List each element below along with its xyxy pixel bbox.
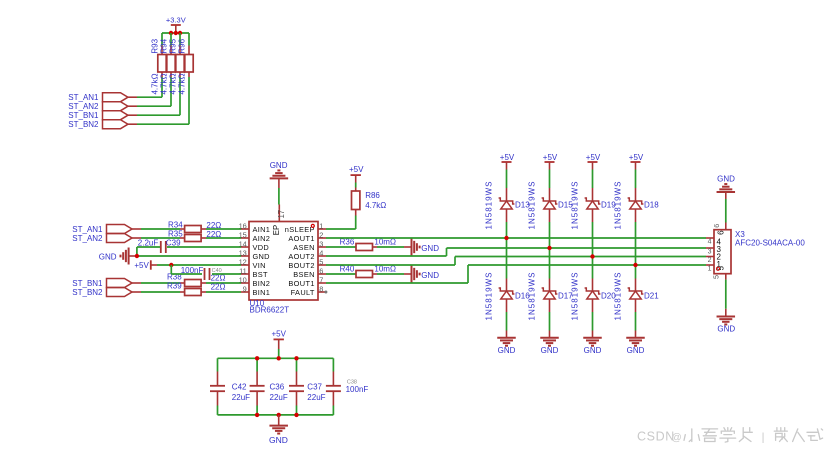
svg-text:R36: R36	[340, 238, 355, 247]
svg-text:4: 4	[708, 239, 712, 246]
svg-text:1N5819WS: 1N5819WS	[485, 181, 494, 230]
svg-text:GND: GND	[627, 346, 645, 355]
svg-text:GND: GND	[541, 346, 559, 355]
svg-text:BST: BST	[253, 270, 268, 279]
svg-text:100nF: 100nF	[181, 266, 204, 275]
svg-text:4.7kΩ: 4.7kΩ	[178, 73, 187, 94]
svg-text:ST_BN1: ST_BN1	[72, 279, 103, 288]
svg-text:3: 3	[708, 249, 712, 256]
svg-text:GND: GND	[717, 174, 735, 183]
svg-text:ST_AN1: ST_AN1	[72, 225, 103, 234]
svg-text:22Ω: 22Ω	[211, 282, 226, 291]
svg-text:22uF: 22uF	[307, 393, 325, 402]
svg-text:22Ω: 22Ω	[206, 221, 221, 230]
svg-text:GND: GND	[253, 252, 270, 261]
svg-text:+5V: +5V	[134, 261, 149, 270]
svg-text:6: 6	[712, 224, 721, 228]
svg-text:100nF: 100nF	[346, 385, 369, 394]
svg-text:|: |	[762, 432, 765, 444]
svg-text:AFC20-S04ACA-00: AFC20-S04ACA-00	[735, 239, 805, 248]
svg-text:5: 5	[319, 258, 323, 267]
svg-text:AIN1: AIN1	[253, 225, 271, 234]
svg-text:+5V: +5V	[271, 330, 286, 339]
svg-text:nSLEEP: nSLEEP	[285, 225, 315, 234]
svg-text:ST_AN2: ST_AN2	[68, 102, 99, 111]
svg-text:BIN1: BIN1	[253, 288, 271, 297]
svg-text:GND: GND	[498, 346, 516, 355]
svg-text:4.7kΩ: 4.7kΩ	[169, 73, 178, 94]
svg-text:1N5819WS: 1N5819WS	[485, 272, 494, 321]
svg-text:6: 6	[717, 230, 726, 235]
svg-text:10mΩ: 10mΩ	[374, 265, 396, 274]
svg-text:3: 3	[319, 240, 323, 249]
svg-text:+5V: +5V	[629, 153, 644, 162]
svg-text:ST_AN1: ST_AN1	[68, 93, 99, 102]
svg-text:BOUT2: BOUT2	[288, 261, 314, 270]
svg-text:2: 2	[708, 257, 712, 264]
svg-text:AOUT2: AOUT2	[288, 252, 314, 261]
svg-text:1N5819WS: 1N5819WS	[614, 181, 623, 230]
svg-text:4.7kΩ: 4.7kΩ	[160, 73, 169, 94]
svg-text:10mΩ: 10mΩ	[374, 238, 396, 247]
svg-text:C37: C37	[307, 383, 322, 392]
svg-text:2.2uF: 2.2uF	[138, 239, 159, 248]
svg-text:R86: R86	[365, 191, 380, 200]
svg-text:+5V: +5V	[586, 153, 601, 162]
svg-text:CSDN: CSDN	[637, 430, 675, 444]
svg-text:5: 5	[717, 266, 726, 271]
svg-text:BIN2: BIN2	[253, 279, 271, 288]
svg-text:GND: GND	[421, 244, 439, 253]
svg-text:@: @	[672, 432, 682, 443]
svg-text:C36: C36	[270, 383, 285, 392]
svg-text:ST_BN2: ST_BN2	[68, 120, 99, 129]
svg-text:4.7kΩ: 4.7kΩ	[365, 201, 386, 210]
svg-text:X3: X3	[735, 230, 745, 239]
svg-text:R40: R40	[340, 265, 355, 274]
svg-text:R96: R96	[178, 38, 187, 53]
svg-text:+5V: +5V	[543, 153, 558, 162]
svg-text:8: 8	[319, 285, 323, 294]
svg-text:17: 17	[277, 210, 286, 219]
svg-text:GND: GND	[99, 252, 117, 261]
svg-text:2: 2	[319, 231, 323, 240]
svg-text:1N5819WS: 1N5819WS	[528, 181, 537, 230]
svg-text:EP: EP	[272, 225, 281, 235]
svg-text:1N5819WS: 1N5819WS	[571, 181, 580, 230]
svg-text:AOUT1: AOUT1	[288, 234, 314, 243]
svg-text:GND: GND	[717, 324, 735, 333]
svg-text:ST_AN2: ST_AN2	[72, 234, 103, 243]
svg-text:1N5819WS: 1N5819WS	[614, 272, 623, 321]
svg-text:+3.3V: +3.3V	[166, 16, 186, 25]
svg-text:9: 9	[243, 285, 247, 294]
svg-text:AIN2: AIN2	[253, 234, 271, 243]
svg-text:D18: D18	[644, 201, 659, 210]
svg-text:D21: D21	[644, 291, 659, 300]
svg-text:GND: GND	[584, 346, 602, 355]
svg-text:C42: C42	[232, 383, 247, 392]
svg-text:ST_BN1: ST_BN1	[68, 111, 99, 120]
svg-text:VDD: VDD	[253, 243, 270, 252]
svg-text:GND: GND	[270, 161, 288, 170]
svg-text:6: 6	[319, 267, 323, 276]
svg-text:ASEN: ASEN	[293, 243, 315, 252]
svg-text:+5V: +5V	[500, 153, 515, 162]
svg-text:R95: R95	[169, 38, 178, 53]
svg-text:R94: R94	[160, 38, 169, 53]
svg-text:5: 5	[711, 275, 720, 279]
svg-text:ST_BN2: ST_BN2	[72, 288, 103, 297]
svg-text:R34: R34	[168, 220, 183, 229]
svg-text:4.7kΩ: 4.7kΩ	[151, 73, 160, 94]
svg-text:FAULT: FAULT	[291, 288, 315, 297]
svg-text:1N5819WS: 1N5819WS	[528, 272, 537, 321]
svg-text:C39: C39	[166, 239, 181, 248]
svg-text:C40: C40	[212, 268, 222, 274]
svg-text:VIN: VIN	[253, 261, 266, 270]
svg-text:BOUT1: BOUT1	[288, 279, 314, 288]
svg-text:+5V: +5V	[349, 165, 364, 174]
svg-text:1N5819WS: 1N5819WS	[571, 272, 580, 321]
svg-text:4: 4	[319, 249, 323, 258]
svg-text:GND: GND	[421, 271, 439, 280]
svg-text:22Ω: 22Ω	[206, 230, 221, 239]
svg-text:1: 1	[708, 266, 712, 273]
svg-text:GND: GND	[269, 435, 288, 445]
svg-text:R35: R35	[168, 229, 183, 238]
svg-text:BSEN: BSEN	[293, 270, 315, 279]
svg-text:22uF: 22uF	[270, 393, 288, 402]
svg-text:7: 7	[319, 276, 323, 285]
svg-text:1: 1	[319, 222, 323, 231]
svg-text:BDR6622T: BDR6622T	[250, 306, 290, 315]
svg-text:R93: R93	[151, 38, 160, 53]
svg-text:R39: R39	[167, 281, 182, 290]
svg-text:22uF: 22uF	[232, 393, 250, 402]
